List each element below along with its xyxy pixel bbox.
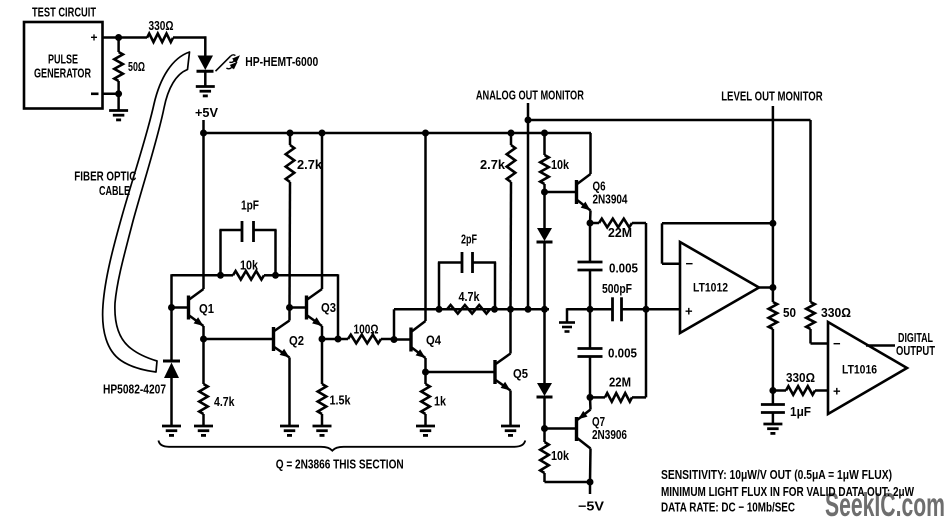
wire 330ohm to LED corner bbox=[173, 36, 206, 39]
wire level monitor vertical bbox=[772, 106, 775, 302]
svg-text:+5V: +5V bbox=[195, 105, 218, 120]
svg-text:330Ω: 330Ω bbox=[821, 305, 851, 320]
node feedback junction bbox=[769, 220, 776, 227]
node + / 50 ohm junction bbox=[115, 34, 122, 41]
wire LT1012 minus input feedback bbox=[662, 262, 680, 265]
fiber optic cable bbox=[103, 52, 190, 372]
node rail/Q4 bbox=[422, 130, 429, 137]
node Q7 base bbox=[541, 425, 548, 432]
node analog monitor tap bbox=[525, 306, 532, 313]
svg-text:0.005: 0.005 bbox=[608, 346, 637, 361]
svg-text:Q1: Q1 bbox=[199, 301, 214, 316]
brace Q section bbox=[159, 441, 526, 451]
wire 10k lower leads bbox=[543, 429, 546, 443]
wire 330ohm lower leads bbox=[773, 389, 786, 392]
wire Q4 emitter to Q5 base bbox=[426, 371, 496, 374]
LED HP-HEMT-6000 bbox=[197, 56, 214, 87]
wire 22M upper leads bbox=[590, 222, 599, 225]
ground (Q5) bbox=[501, 425, 520, 428]
svg-text:10k: 10k bbox=[240, 258, 259, 273]
transistor Q5 parts bbox=[495, 309, 511, 426]
resistor 330ohm lower bbox=[786, 386, 815, 395]
svg-text:10k: 10k bbox=[551, 448, 570, 463]
resistor 50ohm bbox=[114, 52, 123, 81]
svg-text:1k: 1k bbox=[434, 394, 447, 409]
transistor Q1 parts bbox=[172, 133, 204, 339]
ground (photodiode) bbox=[162, 425, 181, 428]
svg-text:50Ω: 50Ω bbox=[128, 59, 145, 74]
resistor 50 bbox=[769, 302, 778, 329]
svg-text:−: − bbox=[686, 256, 694, 271]
wire LT1012 output bbox=[759, 286, 773, 289]
svg-text:2.7k: 2.7k bbox=[297, 157, 323, 172]
svg-text:LT1016: LT1016 bbox=[842, 363, 877, 377]
wire 2.7k-2 leads bbox=[510, 133, 513, 145]
wire diode chain middle bbox=[543, 309, 546, 383]
light arrows bbox=[216, 55, 241, 71]
pulse generator box bbox=[24, 22, 103, 109]
capacitor 1uF bbox=[761, 391, 785, 425]
node LT1012 output bbox=[769, 284, 776, 291]
svg-text:500pF: 500pF bbox=[602, 281, 632, 296]
wire feedback row stage2 bbox=[393, 309, 396, 339]
transistor Q6 parts bbox=[577, 133, 591, 223]
resistor 4.7k (Q1 emitter) bbox=[199, 384, 208, 414]
capacitor 1pF bbox=[219, 221, 276, 275]
node 2pF right bbox=[491, 306, 498, 313]
node rail/2.7k-2 bbox=[508, 130, 515, 137]
ground (1k) bbox=[416, 425, 435, 428]
node 1pF left bbox=[217, 272, 224, 279]
svg-text:LT1012: LT1012 bbox=[693, 281, 728, 295]
svg-text:330Ω: 330Ω bbox=[786, 370, 815, 385]
svg-text:PULSE: PULSE bbox=[48, 52, 78, 67]
node 22M junction bbox=[643, 306, 650, 313]
node Q4 emitter bbox=[422, 369, 429, 376]
resistor 10k upper bbox=[540, 155, 549, 184]
svg-text:4.7k: 4.7k bbox=[214, 394, 235, 409]
svg-text:MINIMUM LIGHT FLUX IN FOR VALI: MINIMUM LIGHT FLUX IN FOR VALID DATA OUT… bbox=[661, 484, 915, 499]
svg-text:2.7k: 2.7k bbox=[480, 157, 506, 172]
node Q1 emitter bbox=[200, 336, 207, 343]
svg-text:50: 50 bbox=[783, 305, 796, 320]
node threshold junction bbox=[769, 387, 776, 394]
diode D2 bbox=[537, 383, 553, 429]
resistor 330ohm (series LED) bbox=[147, 34, 173, 43]
node 1pF right bbox=[272, 272, 279, 279]
diode D1 bbox=[537, 192, 553, 309]
resistor 1.5k bbox=[318, 384, 327, 414]
wire -5V stub bbox=[589, 482, 592, 494]
wire feedback row stage1 bbox=[172, 274, 222, 277]
resistor 22M upper bbox=[599, 219, 632, 228]
ground (pulse generator) bbox=[109, 109, 128, 112]
wire 2.7k-1 leads bbox=[289, 133, 292, 145]
wire 100ohm to Q4 bbox=[381, 338, 394, 341]
wire Q7 base bbox=[545, 427, 577, 430]
wire Q3 emitter to 100ohm bbox=[322, 338, 348, 341]
wire 4.7k leads bbox=[202, 339, 205, 384]
svg-text:Q3: Q3 bbox=[321, 300, 336, 315]
wire 10k leads bbox=[222, 274, 234, 277]
node Q6 base bbox=[541, 189, 548, 196]
transistor Q3 parts bbox=[307, 133, 323, 339]
wire + output of pulse generator bbox=[103, 36, 148, 39]
ground (Q2) bbox=[280, 425, 299, 428]
node Q2 collector / Q3 base bbox=[286, 304, 293, 311]
svg-text:Q4: Q4 bbox=[426, 333, 442, 348]
svg-text:+: + bbox=[91, 31, 98, 45]
svg-text:CABLE: CABLE bbox=[99, 183, 130, 198]
resistor 10k lower bbox=[540, 442, 549, 473]
wire +5V stub bbox=[202, 120, 205, 133]
ground (4.7k) bbox=[194, 425, 213, 428]
comparator U2 LT1016 bbox=[828, 322, 907, 414]
svg-text:Q2: Q2 bbox=[289, 333, 304, 348]
node Q4 base bbox=[391, 336, 398, 343]
wire Q3 base bbox=[290, 306, 307, 309]
svg-text:OUTPUT: OUTPUT bbox=[896, 343, 935, 358]
ground (LED) bbox=[196, 85, 215, 88]
wire servo ground stub bbox=[566, 308, 569, 322]
resistor 1k bbox=[421, 384, 430, 414]
svg-text:2N3904: 2N3904 bbox=[593, 192, 629, 207]
node 0.005 junction bbox=[587, 306, 594, 313]
wire 1k leads bbox=[424, 372, 427, 384]
node rail/2.7k-1 bbox=[287, 130, 294, 137]
node Q1 base bbox=[168, 304, 175, 311]
wire Q6 base bbox=[545, 191, 577, 194]
svg-text:LEVEL OUT MONITOR: LEVEL OUT MONITOR bbox=[721, 88, 823, 103]
wire - output of pulse generator bbox=[103, 93, 119, 96]
svg-text:SENSITIVITY: 10μW/V OUT (0.5μA: SENSITIVITY: 10μW/V OUT (0.5μA = 1μW FLU… bbox=[661, 467, 892, 482]
node -5V junction bbox=[587, 479, 594, 486]
svg-text:0.005: 0.005 bbox=[609, 261, 638, 276]
svg-text:2pF: 2pF bbox=[461, 232, 477, 247]
svg-text:100Ω: 100Ω bbox=[354, 322, 379, 337]
wire 10k upper leads bbox=[543, 133, 546, 155]
svg-text:10k: 10k bbox=[551, 157, 570, 172]
svg-text:Q5: Q5 bbox=[513, 366, 528, 381]
svg-text:−5V: −5V bbox=[578, 499, 604, 514]
resistor 22M lower bbox=[605, 393, 632, 402]
wire Q1 emitter to Q2 base bbox=[204, 338, 274, 341]
svg-text:Q = 2N3866 THIS SECTION: Q = 2N3866 THIS SECTION bbox=[276, 457, 404, 472]
photodiode HP5082-4207 bbox=[163, 361, 180, 426]
wire 1.5k leads bbox=[321, 339, 324, 384]
svg-text:22M: 22M bbox=[609, 375, 631, 390]
wire analog monitor vertical bbox=[527, 103, 530, 309]
wire 50ohm leads bbox=[117, 38, 120, 53]
svg-text:2N3906: 2N3906 bbox=[592, 427, 627, 442]
node analog branch bbox=[525, 117, 532, 124]
node Q6 emitter bbox=[587, 220, 594, 227]
capacitor 0.005 upper bbox=[578, 223, 603, 309]
svg-text:22M: 22M bbox=[608, 225, 632, 240]
node Q3 emitter bbox=[319, 336, 326, 343]
svg-text:ANALOG OUT MONITOR: ANALOG OUT MONITOR bbox=[476, 88, 584, 103]
transistor Q7 parts bbox=[577, 397, 591, 482]
resistor 4.7k feedback bbox=[447, 305, 490, 314]
svg-text:DATA RATE: DC − 10Mb/SEC: DATA RATE: DC − 10Mb/SEC bbox=[661, 500, 795, 515]
node 2pF left bbox=[436, 306, 443, 313]
wire 22M lower leads bbox=[590, 396, 605, 399]
resistor 2.7k second bbox=[507, 145, 516, 182]
capacitor 500pF bbox=[611, 297, 614, 321]
wire +5V rail bbox=[204, 132, 592, 135]
svg-text:4.7k: 4.7k bbox=[459, 289, 481, 304]
transistor Q2 parts bbox=[274, 308, 290, 427]
wire to ground bbox=[117, 94, 120, 111]
node rail/Q3 bbox=[319, 130, 326, 137]
node feedback/Q3 emitter row bbox=[335, 336, 342, 343]
resistor 330ohm upper bbox=[806, 302, 815, 329]
node rail/10k bbox=[541, 130, 548, 137]
node clamp diode junction bbox=[541, 306, 548, 313]
ground (servo) bbox=[559, 321, 575, 324]
svg-text:330Ω: 330Ω bbox=[149, 18, 174, 33]
ground (1uF) bbox=[763, 423, 782, 426]
svg-text:HP-HEMT-6000: HP-HEMT-6000 bbox=[245, 54, 318, 69]
svg-text:1pF: 1pF bbox=[241, 198, 259, 213]
wire 50 lower lead bbox=[772, 329, 775, 391]
svg-text:1.5k: 1.5k bbox=[330, 393, 352, 408]
svg-text:1μF: 1μF bbox=[790, 404, 811, 419]
node - / ground junction bbox=[115, 90, 122, 97]
transistor Q4 parts bbox=[394, 133, 426, 372]
capacitor 0.005 lower bbox=[578, 309, 603, 397]
node Q7 emitter bbox=[587, 394, 594, 401]
svg-text:FIBER OPTIC: FIBER OPTIC bbox=[74, 169, 136, 184]
node rail/Q1 bbox=[200, 130, 207, 137]
resistor 2.7k first bbox=[286, 145, 295, 182]
op-amp U1 LT1012 bbox=[680, 242, 759, 333]
resistor 10k feedback bbox=[233, 271, 264, 280]
svg-text:+: + bbox=[685, 304, 693, 319]
svg-text:GENERATOR: GENERATOR bbox=[34, 66, 91, 81]
wire servo row bbox=[567, 308, 613, 311]
ground (1.5k) bbox=[313, 425, 332, 428]
capacitor 2pF bbox=[438, 252, 496, 309]
wire digital output bbox=[866, 344, 895, 347]
wire 330ohm upper lead bbox=[809, 329, 812, 344]
wire analog branch to comparator bbox=[528, 119, 811, 122]
svg-text:−: − bbox=[833, 336, 841, 351]
svg-text:TEST CIRCUIT: TEST CIRCUIT bbox=[32, 5, 96, 20]
wire feedback row left corner bbox=[170, 274, 173, 361]
node Q5 collector bbox=[507, 306, 514, 313]
svg-text:HP5082-4207: HP5082-4207 bbox=[103, 382, 166, 397]
svg-text:+: + bbox=[833, 384, 841, 399]
resistor 100ohm bbox=[348, 335, 381, 344]
